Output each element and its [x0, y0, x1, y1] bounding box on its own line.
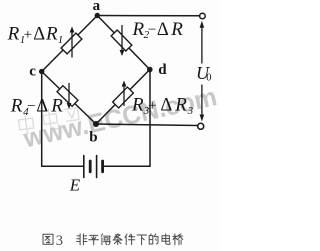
wire right corner up to d	[149, 70, 151, 167]
svg-text:R: R	[7, 24, 20, 45]
caption 下 glyph	[137, 235, 147, 245]
label R3+dR3	[131, 95, 194, 117]
bottom output terminal	[198, 123, 204, 129]
resistor R3 arrow (up)	[123, 84, 125, 106]
battery E cell plate long 2	[96, 156, 98, 178]
svg-text:R: R	[170, 19, 183, 40]
resistor R4 arrow (down)	[68, 84, 70, 106]
node a junction dot	[95, 13, 100, 18]
svg-text:R: R	[131, 95, 144, 116]
wire arm a-c	[42, 16, 98, 72]
svg-text:−: −	[148, 22, 156, 38]
svg-text:−: −	[27, 99, 35, 115]
watermark www.ECCN.com (large grey)	[20, 81, 220, 153]
resistor R1 arrow (up)	[71, 30, 73, 57]
node c junction dot	[39, 69, 44, 74]
top output terminal	[200, 13, 206, 19]
svg-text:Δ: Δ	[157, 20, 169, 40]
svg-text:Δ: Δ	[160, 96, 172, 116]
svg-text:0: 0	[206, 72, 211, 83]
svg-text:+: +	[24, 27, 32, 43]
resistor R2 body	[111, 30, 132, 51]
wire a to top terminal	[97, 15, 199, 17]
svg-text:E: E	[69, 175, 81, 194]
caption 非 glyph	[77, 234, 87, 245]
label R2-dR	[132, 19, 184, 41]
node d junction dot	[147, 67, 153, 73]
wire battery to right corner	[104, 165, 151, 167]
U0 arrow line upper segment with up arrowhead	[201, 27, 203, 63]
svg-text:b: b	[89, 130, 97, 146]
svg-text:d: d	[158, 62, 167, 78]
svg-text:3: 3	[187, 105, 194, 117]
svg-text:Δ: Δ	[33, 25, 45, 45]
svg-text:www.ECCN.com: www.ECCN.com	[20, 81, 220, 153]
caption 的 glyph	[149, 234, 158, 244]
svg-text:Δ: Δ	[36, 96, 48, 116]
svg-text:1: 1	[58, 34, 64, 46]
resistor R4 body	[57, 86, 78, 107]
battery E cell plate long 1	[83, 156, 85, 178]
wire arm c-b	[42, 72, 96, 125]
node b junction dot	[93, 121, 99, 127]
svg-text:c: c	[29, 64, 36, 80]
caption 衡 glyph	[101, 234, 110, 245]
caption 平 glyph	[89, 235, 99, 244]
watermark 中电网 (faint grey chars)	[18, 105, 81, 136]
resistor R2 arrow (down)	[121, 26, 123, 53]
svg-text:3: 3	[56, 233, 63, 249]
label U0	[196, 63, 212, 83]
svg-text:R: R	[10, 96, 23, 117]
battery E cell plate short thick 2	[101, 161, 104, 172]
svg-text:a: a	[93, 0, 101, 14]
svg-text:R: R	[45, 24, 58, 45]
caption 电 glyph	[162, 234, 170, 244]
caption 图 glyph	[43, 234, 53, 244]
wire arm b-d	[96, 70, 150, 125]
wire arm a-d	[97, 16, 150, 70]
svg-text:R: R	[174, 95, 187, 116]
resistor R3 body	[113, 87, 134, 108]
svg-text:R: R	[132, 19, 145, 40]
caption 桥 glyph	[173, 234, 183, 245]
wire b to bottom terminal	[96, 124, 198, 126]
label R1+dR1	[7, 24, 64, 46]
resistor R1 body	[61, 33, 82, 54]
wire c down left side	[41, 72, 43, 167]
battery E cell plate short thick 1	[89, 161, 92, 172]
wire bottom left to battery	[42, 165, 83, 167]
svg-text:+: +	[148, 98, 156, 114]
svg-text:R: R	[50, 95, 63, 116]
U0 arrow line lower segment with down arrowhead	[201, 85, 203, 115]
caption 件 glyph	[125, 234, 135, 245]
caption 条 glyph	[113, 234, 122, 245]
label R4-dR	[10, 95, 64, 117]
